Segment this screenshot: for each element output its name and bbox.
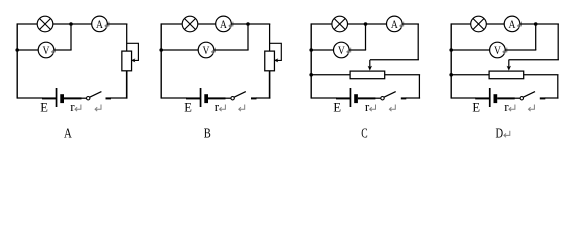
switch S1 (circuit A): open switch (87, 92, 102, 100)
circuit D: battery cell E (long thin positive plate, short thick negative plate) (489, 88, 497, 107)
node: B voltmeter tap on left wire (159, 48, 163, 52)
rheostat R3 (circuit C): rheostat (horizontal slide resistor) (350, 60, 385, 79)
wire: D bottom, switch to inner corner (545, 97, 559, 99)
paste artifact mark after r (circuit A) (75, 105, 81, 112)
rheostat R2 (circuit B) slider arrowhead (274, 58, 278, 62)
wire: circuit A left vertical (16, 23, 18, 98)
wire: C bottom, left corner to battery lead (311, 97, 336, 99)
wire: B top, left corner to lamp (161, 23, 182, 25)
wire: D inner vertical down to bottom wire (557, 75, 559, 99)
wire: C battery right lead (thick) (358, 97, 376, 99)
node: C top junction between lamp and ammeter (364, 22, 368, 26)
wire: B bottom, switch to right corner (256, 97, 270, 99)
voltmeter V2 (circuit B) (198, 42, 214, 58)
wire: A voltmeter branch right (54, 49, 72, 51)
wire: C horizontal to rheostat slider (370, 59, 419, 61)
wire: D voltmeter branch vertical up (535, 24, 537, 50)
rheostat R4 (circuit D) slider arrowhead (507, 66, 511, 71)
paste artifact mark above switch (circuit A) (95, 105, 101, 112)
wire: C bottom, switch to inner corner (406, 97, 420, 99)
svg-text:V: V (338, 43, 345, 57)
voltmeter V4 (circuit D) (490, 42, 506, 58)
wire: B switch fixed contact stub (thick) (251, 97, 257, 99)
wire: C voltmeter branch vertical up (365, 24, 367, 50)
voltmeter V1 (circuit A) (38, 42, 54, 58)
svg-text:A: A (509, 17, 516, 31)
wire: B top, lamp to ammeter (198, 23, 216, 25)
wire: B battery left lead (thick) (186, 97, 200, 99)
wire: B voltmeter branch vertical up (247, 24, 249, 50)
paste artifact mark after r (circuit B) (220, 105, 226, 112)
rheostat R3 (circuit C) slider stem (369, 60, 371, 67)
wire: B lead to switch pivot (225, 97, 231, 99)
wire: D top, lamp to ammeter (486, 23, 504, 25)
wire: B battery right lead (thick) (208, 97, 226, 99)
rheostat R4 (circuit D) slider stem (508, 60, 510, 67)
svg-text:D: D (496, 126, 504, 141)
rheostat R1 (circuit A) slider arrowhead (131, 58, 135, 62)
wire: A battery left lead (thick) (42, 97, 56, 99)
paste artifact mark above switch (circuit B) (239, 105, 245, 112)
svg-text:r: r (504, 99, 509, 114)
lamp L1 (circuit A) (37, 16, 53, 32)
wire: D battery right lead (thick) (497, 97, 515, 99)
paste artifact mark beside voltmeter V4 (503, 48, 507, 54)
ammeter A3 (circuit C) (387, 16, 403, 32)
svg-text:V: V (494, 43, 501, 57)
wire: A right vertical down to rheostat top (126, 24, 128, 52)
circuit C: battery cell E (long thin positive plate, short thick negative plate) (350, 88, 358, 107)
wire: D voltmeter branch right (505, 49, 536, 51)
wire: C voltmeter branch right (349, 49, 366, 51)
paste artifact mark above switch (circuit D) (529, 105, 535, 112)
lamp L4 (circuit D) (471, 16, 487, 32)
voltmeter V3 (circuit C) (334, 42, 350, 58)
wire: A rheostat bottom to bottom right corner (126, 71, 128, 99)
svg-text:C: C (361, 126, 367, 141)
switch S3 (circuit C): open switch (381, 92, 396, 100)
node: B top junction after ammeter (246, 22, 250, 26)
svg-text:B: B (204, 126, 211, 141)
wire: circuit C left vertical (310, 23, 312, 98)
wire: A battery right lead (thick) (64, 97, 82, 99)
wire: C lead to switch pivot (375, 97, 381, 99)
node: A voltmeter tap on left wire (15, 48, 19, 52)
rheostat R2 (circuit B): rheostat (vertical slide resistor) (265, 43, 282, 71)
svg-text:r: r (70, 99, 75, 114)
node: D top junction after ammeter (534, 22, 538, 26)
paste artifact mark beside ammeter A3 (400, 22, 404, 28)
lamp L2 (circuit B) (182, 16, 198, 32)
wire: B bottom, left corner to battery lead (161, 97, 186, 99)
wire: C inner vertical down to bottom wire (418, 75, 420, 99)
svg-text:A: A (391, 17, 398, 31)
rheostat R2 (circuit B) slider arm wire (270, 43, 282, 60)
lamp L3 (circuit C) (332, 16, 348, 32)
wire: C battery left lead (thick) (336, 97, 350, 99)
paste artifact mark beside ammeter A2 (229, 22, 233, 28)
paste artifact mark beside voltmeter V3 (347, 48, 351, 54)
svg-text:E: E (472, 101, 480, 115)
svg-text:V: V (203, 43, 210, 57)
wire: B voltmeter branch left (161, 49, 198, 51)
wire: D lead to switch pivot (514, 97, 520, 99)
svg-text:r: r (365, 99, 370, 114)
wire: D bottom, left corner to battery lead (451, 97, 476, 99)
svg-text:E: E (333, 101, 341, 115)
svg-text:E: E (184, 101, 192, 115)
svg-text:A: A (64, 126, 72, 141)
paste artifact mark beside voltmeter V1 (52, 48, 56, 54)
svg-text:A: A (220, 17, 227, 31)
circuit B: battery cell E (long thin positive plate, short thick negative plate) (200, 88, 208, 107)
wire: A top, ammeter to right corner (107, 23, 127, 25)
paste artifact mark beside ammeter A1 (105, 22, 109, 28)
wire: B voltmeter branch right (214, 49, 249, 51)
rheostat R1 (circuit A): rheostat (vertical slide resistor) (122, 43, 139, 71)
wire: D right vertical, ammeter down to slider level (557, 24, 559, 60)
wire: D left wire to rheostat left end (451, 74, 489, 76)
wire: C rheostat right end to inner corner (385, 74, 421, 76)
switch S2 (circuit B): open switch (231, 92, 246, 100)
svg-text:A: A (96, 17, 103, 31)
wire: D top, left corner to lamp (451, 23, 471, 25)
rheostat R4 (circuit D): rheostat (horizontal slide resistor) (489, 60, 524, 79)
wire: C top, lamp to ammeter (348, 23, 387, 25)
paste artifact mark above switch (circuit C) (389, 105, 395, 112)
wire: B top, ammeter to right corner (231, 23, 270, 25)
switch S4 (circuit D): open switch (520, 92, 535, 100)
wire: A top, left corner to lamp (17, 23, 37, 25)
wire: C top, left corner to lamp (311, 23, 332, 25)
circuit A: battery cell E (long thin positive plate, short thick negative plate) (56, 88, 64, 107)
wire: C right vertical, ammeter down to slider level (417, 24, 419, 60)
wire: D top, ammeter to right corner (520, 23, 559, 25)
node: A top junction between lamp and ammeter (69, 22, 73, 26)
svg-text:E: E (40, 101, 48, 115)
wire: D voltmeter branch left (451, 49, 489, 51)
wire: C left wire to rheostat left end (311, 74, 350, 76)
wire: A lead to switch pivot (81, 97, 86, 99)
ammeter A1 (circuit A) (92, 16, 108, 32)
wire: C top, ammeter to right corner (402, 23, 419, 25)
wire: circuit B left vertical (160, 23, 162, 98)
wire: D horizontal to rheostat slider (509, 59, 559, 61)
rheostat R1 (circuit A) slider arm wire (127, 43, 139, 60)
wire: B rheostat bottom to bottom right corner (269, 71, 271, 99)
svg-text:r: r (215, 99, 220, 114)
wire: A voltmeter branch left (17, 49, 38, 51)
wire: A bottom, left corner to battery lead (17, 97, 42, 99)
wire: A top, lamp to ammeter (53, 23, 92, 25)
ammeter A2 (circuit B) (216, 16, 232, 32)
svg-text:V: V (43, 43, 50, 57)
paste artifact mark beside ammeter A4 (518, 22, 522, 28)
paste artifact mark after r (circuit D) (509, 105, 515, 112)
node: D rheostat tap on left wire (449, 73, 453, 77)
paste artifact mark after r (circuit C) (370, 105, 376, 112)
wire: circuit D left vertical (450, 23, 452, 98)
wire: D rheostat right end to inner corner (524, 74, 559, 76)
rheostat R3 (circuit C) slider arrowhead (368, 66, 372, 71)
paste artifact mark after label D (504, 131, 510, 138)
node: C voltmeter tap on left wire (309, 48, 313, 52)
wire: A voltmeter branch vertical up (70, 24, 72, 50)
wire: A switch fixed contact stub (thick) (106, 97, 112, 99)
wire: C voltmeter branch left (311, 49, 333, 51)
wire: D battery left lead (thick) (475, 97, 489, 99)
wire: B right vertical down to rheostat top (269, 24, 271, 52)
node: D voltmeter tap on left wire (449, 48, 453, 52)
ammeter A4 (circuit D) (504, 16, 520, 32)
node: C rheostat tap on left wire (309, 73, 313, 77)
wire: D switch fixed contact stub (thick) (540, 97, 546, 99)
paste artifact mark beside voltmeter V2 (212, 48, 216, 54)
wire: C switch fixed contact stub (thick) (401, 97, 407, 99)
wire: A bottom, switch to right corner (111, 97, 128, 99)
